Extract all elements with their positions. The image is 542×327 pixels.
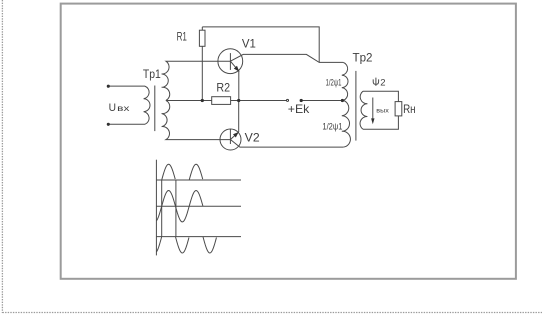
svg-text:U: U [109, 102, 116, 114]
svg-text:2: 2 [380, 78, 385, 89]
svg-text:R1: R1 [177, 30, 188, 44]
svg-text:V1: V1 [242, 37, 256, 51]
svg-text:Tp1: Tp1 [143, 67, 161, 81]
svg-text:R2: R2 [216, 80, 230, 94]
svg-text:вх: вх [117, 104, 129, 113]
svg-text:1/2ψ1: 1/2ψ1 [326, 77, 342, 88]
svg-text:вых: вых [376, 108, 389, 115]
svg-text:1/2ψ1: 1/2ψ1 [322, 122, 342, 133]
svg-text:Tp2: Tp2 [353, 51, 373, 65]
svg-text:V2: V2 [245, 131, 260, 145]
svg-text:Rн: Rн [403, 102, 416, 116]
svg-text:+Ek: +Ek [288, 102, 311, 116]
